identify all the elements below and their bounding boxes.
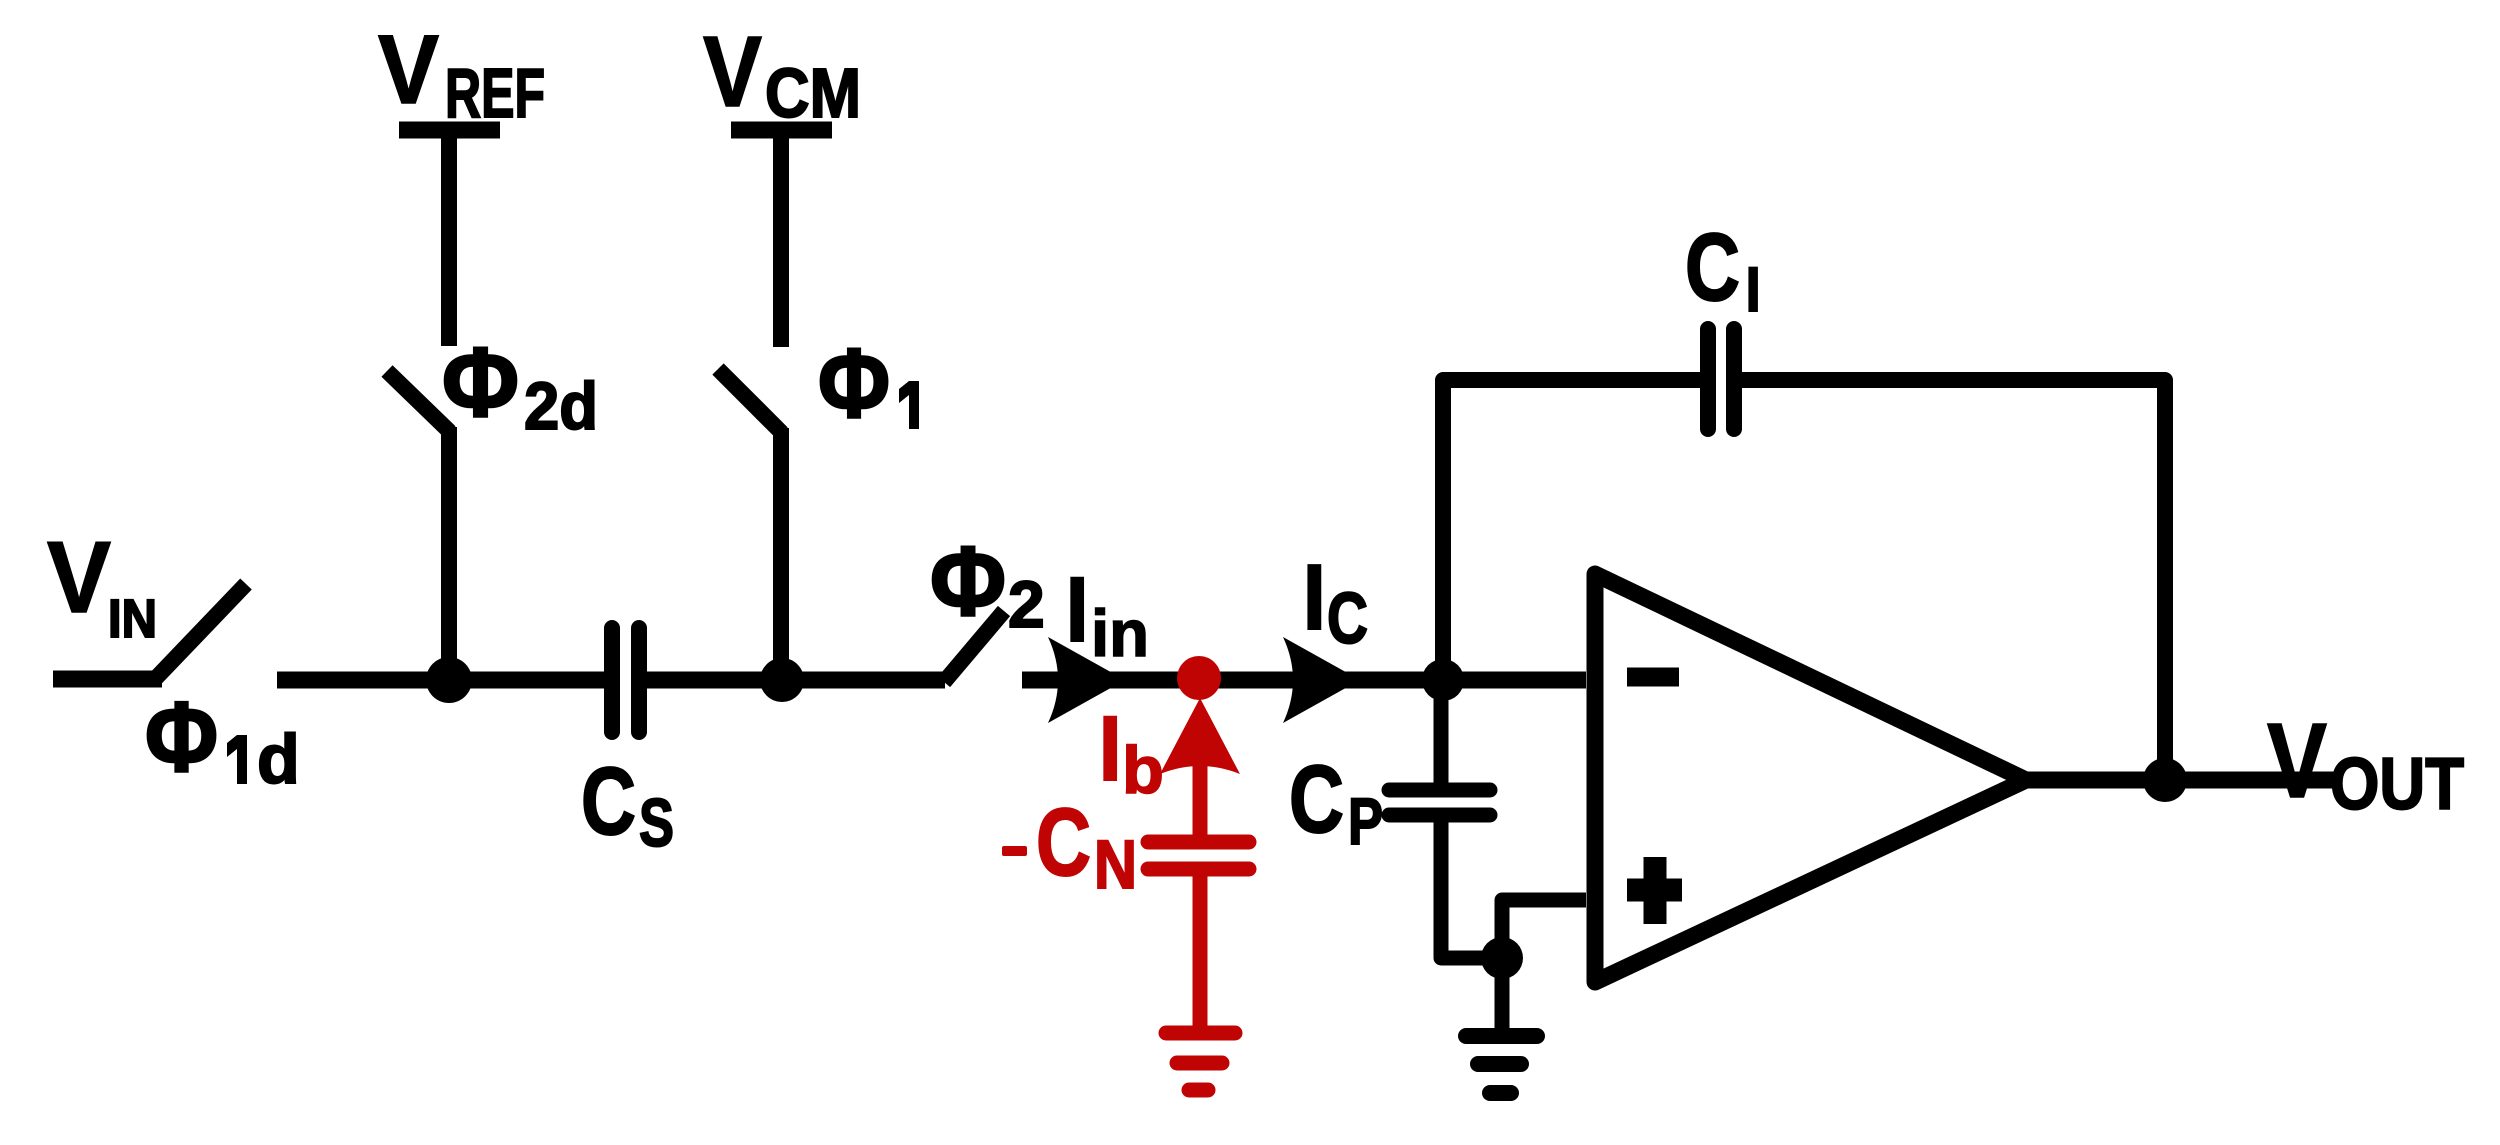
- ground red bar 3: [1189, 1083, 1208, 1098]
- node OUT junction dot: [2143, 758, 2187, 802]
- svg-text:C: C: [1036, 789, 1091, 896]
- svg-text:2: 2: [1008, 567, 1045, 641]
- ground red bar 1: [1166, 1026, 1235, 1041]
- wire V_CM stem: [773, 130, 789, 347]
- label V_OUT: [2267, 702, 2464, 825]
- svg-text:V: V: [47, 522, 111, 634]
- svg-text:C: C: [1327, 579, 1368, 659]
- svg-text:Φ: Φ: [818, 328, 890, 438]
- wire output: [2026, 772, 2340, 789]
- wire V_REF stem: [441, 130, 457, 346]
- label I_in: [1064, 557, 1149, 670]
- ground black bar 3: [1490, 1085, 1511, 1101]
- svg-text:CM: CM: [765, 54, 861, 132]
- wire V_IN input stub: [53, 671, 162, 688]
- svg-text:V: V: [378, 15, 439, 124]
- svg-text:P: P: [1348, 784, 1383, 858]
- label PHI_2: [930, 526, 1045, 641]
- switch PHI_1 arm: [718, 369, 782, 433]
- svg-text:V: V: [703, 16, 762, 128]
- wire V_CM branch lower: [773, 428, 789, 680]
- label V_IN: [47, 522, 157, 649]
- label I_b: [1097, 696, 1164, 808]
- label PHI_1d: [145, 681, 300, 798]
- node D junction dot (plus input): [1481, 937, 1523, 979]
- svg-text:I: I: [1064, 557, 1090, 663]
- svg-text:Φ: Φ: [930, 526, 1006, 636]
- svg-text:b: b: [1122, 733, 1164, 808]
- V_REF supply bar: [399, 122, 500, 139]
- svg-text:Φ: Φ: [442, 327, 519, 437]
- label C_I: [1685, 214, 1762, 326]
- svg-text:I: I: [1097, 696, 1123, 802]
- capacitor -C_N plate bottom: [1148, 862, 1249, 877]
- svg-text:V: V: [2267, 702, 2327, 820]
- label V_CM: [703, 16, 861, 132]
- arrow I_in: [1048, 637, 1125, 723]
- switch PHI_2 arm: [944, 611, 1004, 682]
- svg-text:I: I: [1744, 252, 1762, 326]
- svg-text:2d: 2d: [524, 369, 598, 444]
- wire C_P upper stem: [1434, 680, 1449, 785]
- arrow I_b (red, pointing up): [1160, 698, 1240, 774]
- label PHI_1: [818, 328, 919, 438]
- node B junction dot: [760, 658, 804, 702]
- ground black bar 1: [1466, 1028, 1537, 1044]
- svg-text:I: I: [1301, 544, 1328, 651]
- op-amp plus sign: [1627, 857, 1682, 924]
- wire V_REF branch lower: [441, 427, 457, 681]
- wire main segment C: [1022, 672, 1586, 689]
- label -C_N: [1002, 789, 1137, 903]
- capacitor C_I plate 2: [1726, 329, 1742, 429]
- wire main segment B: [647, 672, 945, 689]
- svg-text:C: C: [581, 748, 636, 855]
- V_CM supply bar: [731, 122, 832, 139]
- svg-text:d: d: [257, 720, 300, 798]
- label PHI_2d: [442, 327, 598, 444]
- wire red shaft upper: [1193, 750, 1208, 842]
- op-amp U1 triangle: [1595, 574, 2026, 982]
- ground black bar 2: [1478, 1056, 1521, 1072]
- wire feedback right side: [1742, 380, 2165, 772]
- wire C_P lower bend: [1441, 813, 1500, 958]
- node A junction dot: [426, 657, 472, 703]
- wire ground stem black: [1495, 958, 1510, 1028]
- label C_S: [581, 748, 674, 861]
- svg-text:N: N: [1094, 826, 1137, 903]
- wire main segment A: [277, 672, 606, 689]
- switch PHI_1d arm: [156, 584, 246, 678]
- label I_C: [1301, 544, 1368, 659]
- wire plus input riser: [1502, 900, 1586, 960]
- label C_P: [1289, 746, 1383, 858]
- switch PHI_2d arm: [387, 371, 450, 432]
- svg-text:in: in: [1091, 596, 1149, 670]
- capacitor C_S plate 1: [604, 628, 620, 732]
- capacitor C_P plate top: [1389, 783, 1490, 798]
- capacitor -C_N plate top: [1148, 835, 1249, 850]
- node N (red summing node): [1177, 656, 1221, 700]
- svg-text:REF: REF: [445, 54, 545, 132]
- op-amp minus sign: [1627, 668, 1679, 687]
- svg-text:C: C: [1289, 746, 1344, 853]
- capacitor C_S plate 2: [631, 628, 647, 732]
- wire feedback left vertical: [1443, 380, 1700, 680]
- wire red shaft lower: [1193, 869, 1208, 1026]
- ground red bar 2: [1177, 1056, 1222, 1071]
- svg-text:IN: IN: [108, 589, 157, 649]
- capacitor C_I plate 1: [1700, 329, 1716, 429]
- label V_REF: [378, 15, 545, 132]
- svg-text:OUT: OUT: [2330, 744, 2464, 825]
- arrow I_C: [1283, 637, 1360, 723]
- svg-text:Φ: Φ: [145, 681, 218, 792]
- svg-text:S: S: [639, 785, 674, 861]
- node C junction dot: [1422, 659, 1464, 701]
- capacitor C_P plate bottom: [1389, 808, 1490, 823]
- svg-text:C: C: [1685, 214, 1740, 321]
